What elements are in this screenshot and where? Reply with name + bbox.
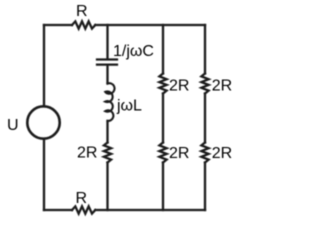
wire bottom-right <box>95 209 205 211</box>
svg-text:R: R <box>76 3 88 20</box>
svg-text:2R: 2R <box>169 145 189 162</box>
resistor R2 (bottom) zigzag <box>72 206 95 213</box>
wire capacitor to inductor <box>106 66 108 84</box>
svg-text:R: R <box>76 190 88 207</box>
svg-text:U: U <box>7 117 19 134</box>
resistor 2R branch3 top zigzag <box>201 74 208 94</box>
svg-text:2R: 2R <box>212 145 232 162</box>
wire branch3 lower <box>204 163 206 211</box>
wire branch2 middle <box>162 94 164 143</box>
svg-text:2R: 2R <box>212 78 232 95</box>
wire middle branch upper <box>106 25 108 58</box>
svg-text:2R: 2R <box>169 78 189 95</box>
wire bottom-left <box>44 209 72 211</box>
wire top-right <box>95 24 205 26</box>
svg-text:1/jωC: 1/jωC <box>113 43 154 60</box>
capacitor C1 bottom plate <box>97 63 117 65</box>
resistor 2R branch3 bottom zigzag <box>201 143 208 163</box>
wire left lower (source bottom lead) <box>43 139 45 210</box>
resistor R1 (top) zigzag <box>72 21 95 28</box>
resistor 2R branch2 bottom zigzag <box>159 143 166 163</box>
resistor 2R middle zigzag <box>104 143 111 163</box>
svg-text:2R: 2R <box>77 145 97 162</box>
wire middle branch lower <box>106 163 108 211</box>
wire branch2 upper <box>162 25 164 74</box>
wire branch3 middle <box>204 94 206 143</box>
svg-text:jωL: jωL <box>116 98 142 115</box>
inductor L1 coil <box>105 83 114 121</box>
wire branch2 lower <box>162 163 164 211</box>
wire top-left <box>44 24 72 26</box>
wire inductor to resistor <box>106 121 108 143</box>
resistor 2R branch2 top zigzag <box>159 74 166 94</box>
wire branch3 upper <box>204 25 206 74</box>
wire left upper (source top lead) <box>43 25 45 106</box>
capacitor C1 top plate <box>97 58 117 60</box>
voltage source U1 circle <box>27 106 59 138</box>
